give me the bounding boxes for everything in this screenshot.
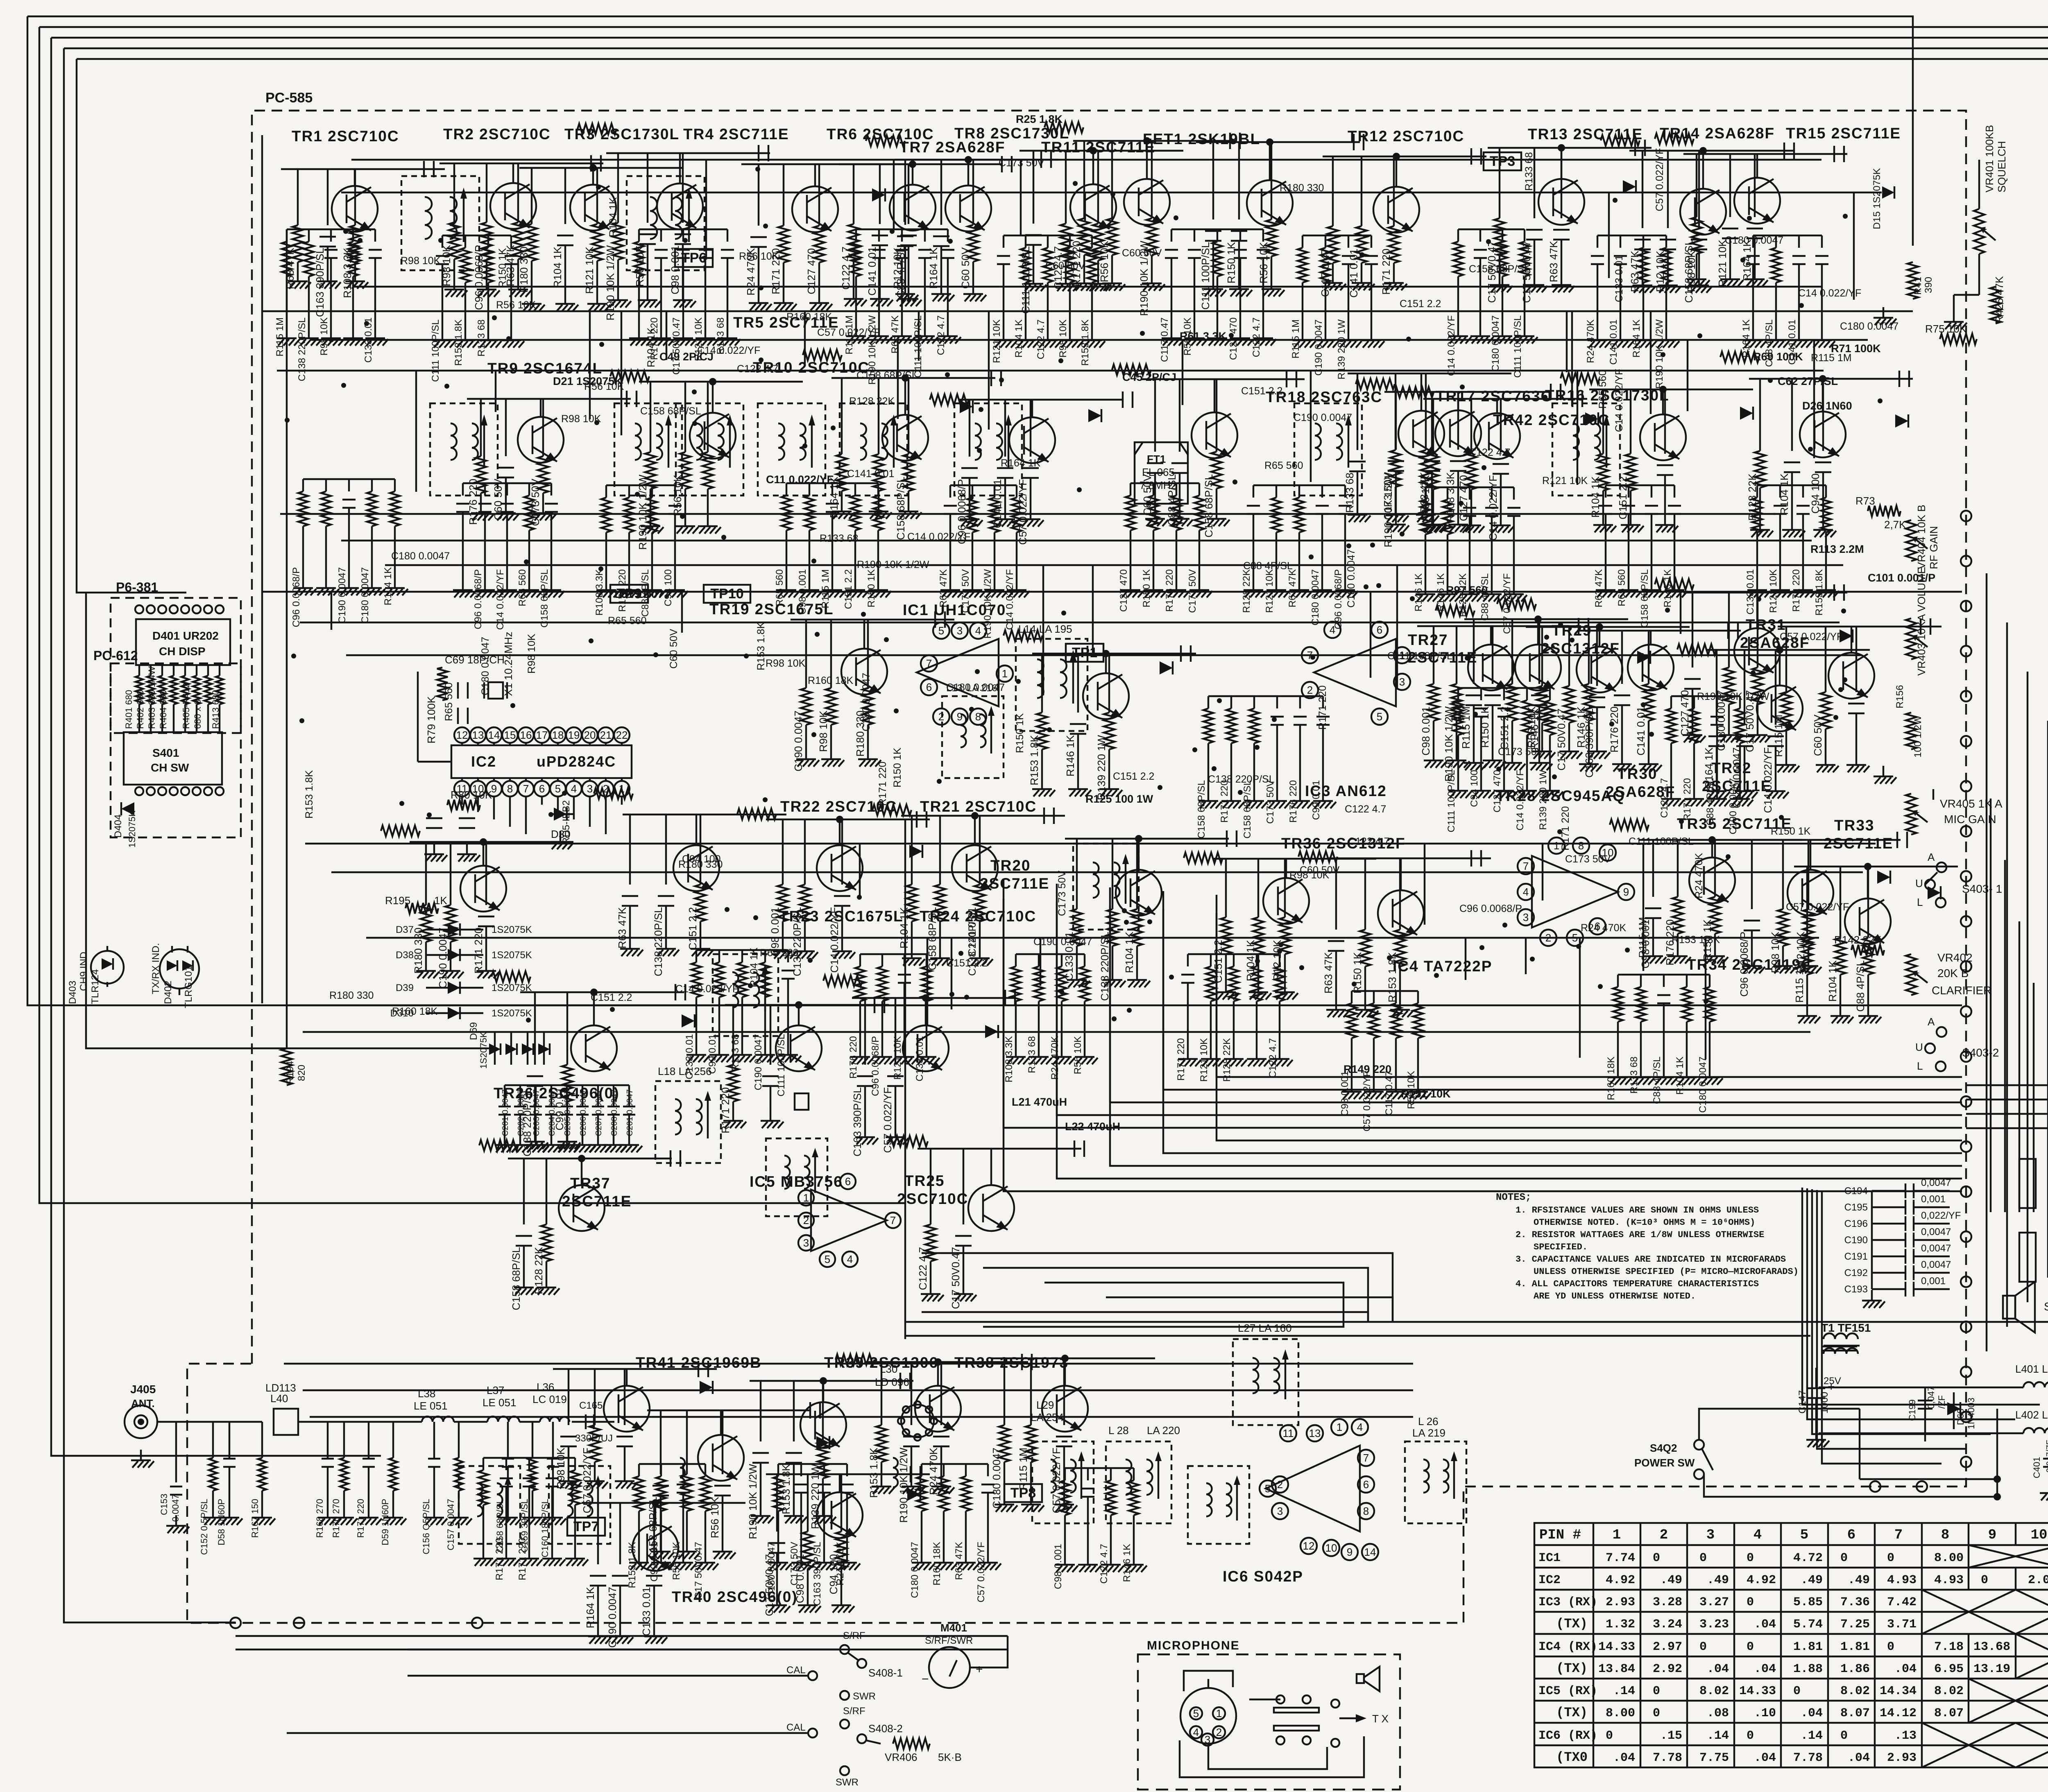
- stage cluster: [673, 845, 719, 891]
- stage cluster: [1757, 686, 1803, 731]
- svg-text:R121 10K: R121 10K: [1198, 1038, 1210, 1082]
- svg-text:T1 TF151: T1 TF151: [1821, 1321, 1871, 1334]
- control wire bundle to switches: [1217, 913, 1962, 1077]
- svg-text:VR402: VR402: [1937, 951, 1973, 964]
- svg-text:C160 180P/SL: C160 180P/SL: [540, 1499, 550, 1557]
- svg-text:11: 11: [1283, 1427, 1294, 1439]
- bottom coils row F: [459, 1466, 520, 1544]
- svg-text:1S2075K: 1S2075K: [492, 924, 532, 935]
- svg-text:FL 065: FL 065: [1142, 466, 1175, 478]
- svg-text:330P/UJ: 330P/UJ: [575, 1433, 613, 1444]
- resistor comb: [1065, 1467, 1134, 1469]
- svg-text:R65 560: R65 560: [608, 615, 647, 627]
- svg-text:RF GAIN: RF GAIN: [1928, 526, 1940, 569]
- svg-text:L: L: [1917, 1060, 1923, 1072]
- svg-text:R104 1K: R104 1K: [551, 246, 564, 288]
- svg-text:R153 1.8K: R153 1.8K: [453, 319, 464, 366]
- svg-text:R104 1K: R104 1K: [1674, 1057, 1686, 1095]
- J401 PA SP jack: [2019, 1159, 2036, 1208]
- R194 R195: [281, 1048, 292, 1085]
- svg-text:4: 4: [571, 783, 577, 795]
- svg-text:C138 220P/SL: C138 220P/SL: [652, 907, 664, 976]
- svg-text:C94 100: C94 100: [1809, 473, 1821, 514]
- svg-text:R63 47K: R63 47K: [1593, 569, 1604, 607]
- svg-text:D37: D37: [396, 924, 414, 935]
- svg-text:R75 10K: R75 10K: [1925, 323, 1967, 335]
- stage cluster: [1263, 878, 1309, 924]
- svg-text:C180 0.0047: C180 0.0047: [360, 567, 371, 623]
- svg-text:S/RF: S/RF: [843, 1630, 865, 1641]
- svg-text:R63 47K: R63 47K: [1287, 569, 1298, 607]
- svg-text:LA 219: LA 219: [1412, 1427, 1445, 1439]
- row A coil boxes: [401, 176, 479, 270]
- svg-text:R128 22K: R128 22K: [1457, 573, 1468, 617]
- svg-text:C190 0.0047: C190 0.0047: [753, 1034, 764, 1090]
- svg-text:R171 220: R171 220: [472, 928, 485, 974]
- svg-text:C196: C196: [1844, 1218, 1868, 1229]
- resistor comb: [1171, 229, 1263, 230]
- svg-text:R404 680: R404 680: [158, 690, 168, 729]
- svg-text:14: 14: [488, 729, 500, 741]
- svg-text:R176 220: R176 220: [1164, 569, 1175, 612]
- R41 390 resistor: [1908, 262, 1918, 299]
- svg-text:7: 7: [890, 1214, 896, 1226]
- svg-text:R56 10K: R56 10K: [1406, 1071, 1417, 1109]
- stage cluster: [690, 413, 736, 459]
- svg-text:R153 1.8K: R153 1.8K: [868, 1447, 880, 1498]
- resistor comb: [1618, 974, 1710, 975]
- svg-text:C57 0.022/YF: C57 0.022/YF: [1786, 901, 1849, 913]
- resistor comb: [1004, 235, 1092, 236]
- svg-text:7: 7: [1523, 860, 1529, 872]
- svg-text:3: 3: [1277, 1505, 1283, 1517]
- svg-text:0,001: 0,001: [1921, 1194, 1946, 1205]
- svg-text:R128 22K: R128 22K: [1241, 569, 1252, 613]
- svg-text:CLARIFIER: CLARIFIER: [1932, 984, 1991, 997]
- svg-text:C163 390P/SL: C163 390P/SL: [314, 248, 326, 317]
- svg-text:R164 1K: R164 1K: [1001, 457, 1041, 469]
- svg-text:19: 19: [568, 729, 580, 741]
- stage cluster: [657, 183, 703, 229]
- svg-text:R104 1K: R104 1K: [1013, 319, 1024, 357]
- J402 EXT SP jack: [2019, 1233, 2036, 1282]
- svg-text:D401 UR202: D401 UR202: [152, 629, 219, 642]
- svg-text:ANT.: ANT.: [131, 1397, 155, 1410]
- svg-text:C199: C199: [1907, 1399, 1917, 1421]
- svg-text:0.0047: 0.0047: [170, 1494, 181, 1522]
- svg-text:C158 68P/SL: C158 68P/SL: [1683, 240, 1695, 303]
- svg-text:3: 3: [587, 783, 593, 795]
- svg-text:10: 10: [1602, 846, 1614, 859]
- svg-text:R403 330 1/4W: R403 330 1/4W: [147, 666, 157, 729]
- op-amp IC5 MB3756: [811, 1190, 887, 1251]
- stage cluster: [1398, 411, 1444, 457]
- svg-text:CH9 IND.: CH9 IND.: [78, 949, 89, 991]
- svg-text:D15 1S2075K: D15 1S2075K: [1871, 168, 1883, 229]
- svg-text:TX/RX IND.: TX/RX IND.: [150, 943, 161, 994]
- svg-text:R115 1M: R115 1M: [1811, 352, 1852, 364]
- svg-text:MIC GAIN: MIC GAIN: [1944, 813, 1996, 826]
- svg-text:C138 220P/SL: C138 220P/SL: [1099, 932, 1111, 1001]
- svg-text:L401 LD013: L401 LD013: [2015, 1363, 2048, 1375]
- stage cluster: [1680, 189, 1726, 235]
- resistor comb: [922, 1463, 988, 1465]
- svg-text:L21 470uH: L21 470uH: [1012, 1096, 1067, 1108]
- svg-text:C133 0.01: C133 0.01: [1745, 569, 1756, 615]
- svg-text:17: 17: [536, 729, 548, 741]
- svg-text:C180 0.0047: C180 0.0047: [1697, 1057, 1708, 1113]
- svg-text:C122 4.7: C122 4.7: [1267, 1038, 1278, 1078]
- svg-text:C153: C153: [159, 1493, 169, 1515]
- svg-text:R405-R412: R405-R412: [181, 683, 191, 729]
- svg-text:R146 1K: R146 1K: [1662, 569, 1673, 607]
- S403-2 selector: [1937, 1027, 1946, 1037]
- svg-text:C98 0.001: C98 0.001: [1420, 706, 1432, 756]
- svg-text:R115 1M: R115 1M: [1772, 715, 1785, 757]
- stage cluster: [1192, 412, 1237, 458]
- svg-text:C141 0.01: C141 0.01: [1608, 319, 1619, 365]
- svg-text:S403- 1: S403- 1: [1962, 882, 2002, 895]
- svg-text:C194: C194: [1844, 1186, 1868, 1197]
- svg-text:R160 18K: R160 18K: [808, 675, 854, 686]
- svg-text:R160 18K: R160 18K: [931, 1542, 942, 1586]
- SWR cal circles: [840, 1691, 849, 1700]
- svg-text:14: 14: [1364, 1546, 1376, 1558]
- svg-text:R121 10K: R121 10K: [991, 319, 1002, 363]
- svg-text:C190: C190: [1844, 1235, 1868, 1246]
- svg-text:D403: D403: [67, 981, 78, 1004]
- svg-text:C180 0.0047: C180 0.0047: [861, 673, 872, 731]
- svg-text:R63 47K: R63 47K: [954, 1542, 965, 1580]
- resistor comb: [1253, 484, 1345, 486]
- svg-text:1K: 1K: [434, 894, 447, 907]
- svg-text:C147: C147: [1797, 1390, 1808, 1414]
- svg-text:C190 0.0047: C190 0.0047: [1033, 936, 1092, 948]
- D15 diode: [1882, 186, 1894, 199]
- svg-text:VR401 100KB: VR401 100KB: [1983, 125, 1996, 192]
- svg-text:C96 0.0068/P: C96 0.0068/P: [1459, 903, 1522, 914]
- svg-text:20: 20: [584, 729, 596, 741]
- svg-text:0,0047: 0,0047: [1921, 1226, 1951, 1238]
- svg-text:R133 68: R133 68: [1026, 1036, 1038, 1073]
- svg-text:R153 1.8K: R153 1.8K: [1672, 934, 1720, 946]
- svg-text:R171 220: R171 220: [356, 1499, 366, 1538]
- svg-text:L29: L29: [1036, 1399, 1054, 1411]
- svg-text:C111 100P/SL: C111 100P/SL: [430, 319, 441, 382]
- L15-L17 coil boxes: [1073, 844, 1139, 930]
- svg-text:R104 1K: R104 1K: [1589, 476, 1602, 518]
- svg-text:C151 2.2: C151 2.2: [1113, 771, 1154, 782]
- resistor comb: [606, 484, 675, 486]
- svg-text:LD 096: LD 096: [875, 1376, 909, 1388]
- svg-text:S4Q2: S4Q2: [1650, 1442, 1677, 1454]
- svg-text:PC-612: PC-612: [93, 648, 138, 663]
- svg-text:R153 1.8K: R153 1.8K: [780, 1464, 792, 1514]
- stage cluster: [1538, 179, 1584, 225]
- stage cluster: [1373, 187, 1419, 233]
- svg-text:R121 10K: R121 10K: [1542, 475, 1588, 486]
- svg-text:2,7K: 2,7K: [1884, 518, 1906, 531]
- svg-text:R150 1K: R150 1K: [1351, 952, 1364, 993]
- svg-text:2: 2: [938, 710, 944, 723]
- svg-text:R63 47K: R63 47K: [616, 907, 628, 948]
- R142/R156 details: [1906, 713, 1917, 749]
- antenna filter caps: [212, 1422, 214, 1458]
- svg-text:C133 0.01: C133 0.01: [914, 1036, 925, 1082]
- svg-text:4: 4: [975, 624, 981, 637]
- svg-text:C138 220P/SL: C138 220P/SL: [1208, 774, 1275, 785]
- op-amp IC1: [917, 639, 999, 706]
- svg-text:5: 5: [1377, 710, 1382, 723]
- svg-text:1: 1: [1337, 1421, 1342, 1433]
- resistor comb: [1671, 695, 1740, 697]
- outer bus wires top/left: [27, 16, 1913, 246]
- svg-text:R133 68: R133 68: [820, 533, 859, 544]
- svg-text:C122 4.7: C122 4.7: [936, 315, 947, 355]
- stage cluster: [1124, 179, 1170, 225]
- svg-text:8: 8: [1363, 1505, 1369, 1517]
- svg-text:C159 39P/SL: C159 39P/SL: [519, 1499, 530, 1552]
- svg-text:R190 10K 1/2W: R190 10K 1/2W: [857, 559, 929, 570]
- svg-text:R195: R195: [385, 894, 410, 907]
- svg-text:C45 2P/CJ: C45 2P/CJ: [1122, 371, 1176, 383]
- TX/RX indicator LED: [160, 949, 199, 989]
- L401 LD013: [2023, 1382, 2048, 1387]
- svg-text:C180 0.0047: C180 0.0047: [990, 1448, 1003, 1509]
- svg-text:C14 0.022/YF: C14 0.022/YF: [907, 531, 970, 543]
- svg-text:D38: D38: [396, 950, 414, 961]
- stage cluster: [1828, 653, 1874, 699]
- svg-text:C173 50V: C173 50V: [1056, 870, 1068, 916]
- svg-text:POWER SW: POWER SW: [1634, 1457, 1695, 1469]
- stage cluster: [1640, 414, 1686, 460]
- svg-text:A: A: [1928, 851, 1935, 863]
- FT1 crystal filter: [1135, 442, 1188, 504]
- svg-text:C111 100P/SL: C111 100P/SL: [1199, 242, 1212, 310]
- svg-text:C96 0.0068/P: C96 0.0068/P: [1333, 569, 1344, 629]
- VR404 RF gain pot: [1906, 520, 1917, 561]
- left bus wires: [27, 16, 1962, 1005]
- svg-text:C69 18P/CH: C69 18P/CH: [445, 654, 505, 666]
- svg-text:R153 1.8K: R153 1.8K: [1814, 569, 1825, 615]
- svg-text:C57 0.022/YF: C57 0.022/YF: [1654, 148, 1665, 211]
- svg-text:R153 1.8K: R153 1.8K: [627, 1542, 638, 1588]
- svg-text:R146 1K: R146 1K: [1435, 573, 1446, 611]
- svg-text:1S2075K: 1S2075K: [127, 810, 137, 848]
- svg-text:SQUELCH: SQUELCH: [1996, 141, 2008, 192]
- svg-text:R80 10K: R80 10K: [451, 789, 492, 801]
- svg-text:C17 50V0.47: C17 50V0.47: [949, 1247, 962, 1309]
- stage cluster: [1070, 184, 1116, 230]
- svg-text:R150 1K: R150 1K: [1225, 242, 1237, 283]
- svg-text:C94 100: C94 100: [1469, 770, 1480, 807]
- svg-text:7: 7: [1363, 1452, 1369, 1464]
- svg-text:R115 1M: R115 1M: [1637, 917, 1649, 958]
- svg-text:C158 68P/SL: C158 68P/SL: [640, 405, 701, 417]
- svg-text:R153 1.8K: R153 1.8K: [1028, 735, 1040, 785]
- D69-D72 diode bank: [489, 1043, 501, 1055]
- svg-text:8: 8: [507, 783, 513, 795]
- svg-text:2: 2: [1307, 684, 1313, 696]
- svg-text:L22 470uH: L22 470uH: [1065, 1120, 1120, 1133]
- svg-text:R153 1.8K: R153 1.8K: [304, 770, 315, 819]
- svg-text:R65 560: R65 560: [1616, 569, 1627, 606]
- L29 LA254 coil box: [1032, 1441, 1094, 1523]
- svg-text:RD5-IEB2: RD5-IEB2: [561, 800, 572, 844]
- SP401 speaker: [2003, 1296, 2015, 1319]
- svg-text:C180 0.0047: C180 0.0047: [1725, 235, 1783, 246]
- svg-text:LD113: LD113: [265, 1382, 296, 1394]
- L27 LA160 coil box: [1233, 1339, 1298, 1425]
- svg-text:21: 21: [600, 729, 612, 741]
- svg-text:L402 LD013: L402 LD013: [2015, 1409, 2048, 1421]
- junction circles on bottom dashed edge: [1870, 1481, 1880, 1492]
- L35 etc: [680, 1458, 685, 1487]
- stage cluster: [1468, 645, 1514, 690]
- svg-text:R115 1M: R115 1M: [1290, 319, 1301, 359]
- svg-text:PC-585: PC-585: [265, 90, 313, 106]
- svg-text:2: 2: [603, 783, 609, 795]
- svg-text:R65 560: R65 560: [1264, 460, 1303, 471]
- svg-text:1S2075K: 1S2075K: [478, 1032, 489, 1069]
- svg-text:C173 50V: C173 50V: [1498, 746, 1544, 758]
- svg-text:C180 0.0047: C180 0.0047: [1840, 321, 1898, 332]
- svg-text:L 26: L 26: [1418, 1415, 1439, 1428]
- svg-text:D59 1N60P: D59 1N60P: [380, 1499, 390, 1545]
- stage cluster: [776, 1025, 822, 1071]
- svg-text:R190 10K 1/2W: R190 10K 1/2W: [1382, 472, 1394, 548]
- svg-text:VR403 10KA VOLUME: VR403 10KA VOLUME: [1915, 567, 1928, 676]
- svg-text:R146 1K: R146 1K: [1064, 735, 1076, 776]
- svg-text:R194: R194: [285, 1061, 296, 1084]
- svg-text:R56 10K: R56 10K: [584, 381, 624, 392]
- right side verticals to switch column: [1986, 573, 1987, 1351]
- svg-text:S403-2: S403-2: [1962, 1046, 1999, 1059]
- svg-text:C111 100P/SL: C111 100P/SL: [1512, 315, 1523, 378]
- resistor comb: [639, 229, 727, 230]
- svg-text:R98 10K: R98 10K: [401, 255, 441, 267]
- svg-text:C17 50V0.47: C17 50V0.47: [671, 317, 682, 375]
- svg-text:12: 12: [1303, 1540, 1315, 1552]
- svg-text:R150 1K: R150 1K: [1014, 713, 1026, 753]
- svg-text:8: 8: [1578, 839, 1584, 852]
- svg-text:7.8MHz: 7.8MHz: [1140, 479, 1176, 491]
- svg-text:C122 4.7: C122 4.7: [917, 1247, 929, 1290]
- svg-text:C158 68P/SL: C158 68P/SL: [495, 1499, 505, 1552]
- svg-text:R425 47K: R425 47K: [1993, 276, 2005, 324]
- svg-text:10: 10: [1325, 1542, 1337, 1554]
- svg-text:R180 330: R180 330: [1280, 182, 1324, 194]
- svg-text:C180 0.0047: C180 0.0047: [391, 550, 450, 562]
- resistor comb: [1757, 484, 1826, 486]
- svg-text:R150 1K: R150 1K: [1141, 569, 1152, 607]
- PC-585 board dashed boundary: [187, 111, 1966, 1623]
- resistor comb: [1458, 229, 1525, 230]
- svg-text:0,001: 0,001: [1921, 1276, 1946, 1287]
- svg-text:C122 4.7: C122 4.7: [1035, 319, 1047, 359]
- svg-text:12: 12: [456, 729, 468, 741]
- svg-text:R164 1K: R164 1K: [584, 1586, 596, 1628]
- svg-text:16: 16: [520, 729, 532, 741]
- resistor comb: [1458, 687, 1550, 689]
- stage cluster: [817, 1492, 863, 1538]
- M401 meter: [929, 1647, 970, 1688]
- svg-text:C127 470: C127 470: [1118, 569, 1129, 612]
- resistor comb: [303, 478, 395, 480]
- svg-text:C152 0.5P/SL: C152 0.5P/SL: [199, 1499, 209, 1555]
- svg-text:R24 470K: R24 470K: [1585, 319, 1596, 363]
- svg-text:R401 680: R401 680: [124, 690, 134, 729]
- L37 LE051: [487, 1416, 519, 1422]
- svg-text:C190 0.0047: C190 0.0047: [792, 710, 804, 772]
- svg-text:L27 LA 160: L27 LA 160: [1238, 1322, 1292, 1334]
- resistor comb: [1208, 695, 1323, 697]
- svg-text:R104 1K: R104 1K: [1826, 960, 1839, 1002]
- resistor comb: [860, 953, 927, 955]
- svg-text:IC2: IC2: [471, 753, 496, 770]
- svg-text:C151 2.2: C151 2.2: [591, 992, 632, 1003]
- svg-text:C133 0.01: C133 0.01: [1613, 255, 1625, 302]
- C201-C208 capacitor bank: [504, 1085, 505, 1106]
- R401-R413 resistor bank: [138, 665, 140, 676]
- svg-text:C96 0.0068/P: C96 0.0068/P: [870, 1036, 881, 1096]
- svg-text:uPD2824C: uPD2824C: [537, 753, 616, 770]
- svg-text:R133 68: R133 68: [1523, 152, 1535, 191]
- svg-text:TLR124: TLR124: [90, 969, 101, 1004]
- svg-text:D39: D39: [396, 982, 414, 993]
- svg-text:C156 Q5P/SL: C156 Q5P/SL: [421, 1499, 431, 1554]
- svg-text:5: 5: [555, 783, 561, 795]
- svg-text:R24 470K: R24 470K: [927, 1447, 940, 1495]
- L402 LD013: [2023, 1428, 2048, 1433]
- svg-text:R125 100 1W: R125 100 1W: [1085, 793, 1153, 805]
- svg-text:C88 4P/SL: C88 4P/SL: [1854, 960, 1867, 1012]
- svg-text:R63 47K: R63 47K: [1322, 952, 1334, 993]
- svg-text:R98 10K: R98 10K: [766, 658, 806, 669]
- stage cluster: [841, 649, 887, 695]
- svg-text:1: 1: [803, 1192, 809, 1204]
- svg-text:C180 0.0047: C180 0.0047: [1310, 569, 1321, 625]
- svg-text:C122 4.7: C122 4.7: [1099, 1544, 1110, 1584]
- svg-text:R115 1M: R115 1M: [274, 317, 285, 357]
- resistor comb: [786, 482, 878, 484]
- svg-text:C88 4P/SL: C88 4P/SL: [1652, 1057, 1663, 1104]
- svg-text:2: 2: [1277, 1478, 1283, 1491]
- stage cluster: [632, 1525, 678, 1571]
- connector dashed line with terminals: [1961, 511, 1971, 521]
- svg-text:D310: D310: [390, 1008, 414, 1019]
- stage cluster: [570, 185, 616, 231]
- svg-text:R153 1.8K: R153 1.8K: [755, 622, 767, 670]
- switch feed verticals: [1990, 799, 1991, 1212]
- svg-text:R133 68: R133 68: [1629, 1057, 1640, 1094]
- svg-text:C201 0.0047: C201 0.0047: [625, 1089, 634, 1136]
- svg-text:L40: L40: [270, 1392, 288, 1405]
- svg-text:2: 2: [803, 1214, 809, 1226]
- vertical drops: [1650, 311, 1652, 414]
- svg-text:R133 68: R133 68: [476, 319, 487, 357]
- svg-text:C14 0.022/YF: C14 0.022/YF: [1798, 287, 1861, 299]
- resistor comb: [1425, 486, 1514, 488]
- stage cluster: [1247, 180, 1293, 226]
- horizontal mid wires: [262, 310, 1913, 312]
- VR406 5K-B: [893, 1738, 930, 1749]
- svg-text:C180 0.0047: C180 0.0047: [909, 1542, 920, 1598]
- svg-text:U: U: [1915, 1041, 1923, 1053]
- svg-text:R24 470K: R24 470K: [1693, 853, 1705, 898]
- meter switch S408-1: [840, 1645, 849, 1654]
- svg-text:C180 0.0047: C180 0.0047: [1490, 315, 1501, 371]
